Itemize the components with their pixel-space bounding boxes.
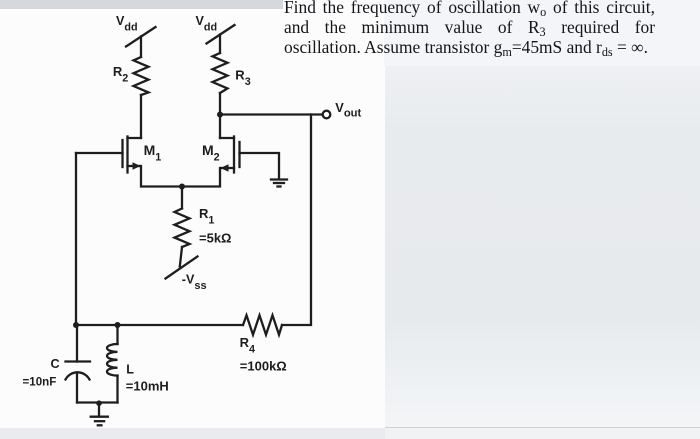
svg-text:L: L [126, 363, 134, 377]
resistor R4 [243, 315, 282, 334]
terminal Vout [323, 111, 331, 119]
resistor R3 [213, 53, 228, 93]
problem statement text [284, 0, 655, 57]
node: tank top left [73, 322, 79, 328]
wire M1 source to tail node [141, 166, 182, 187]
svg-text:=100kΩ: =100kΩ [240, 359, 287, 374]
power Vdd supply (left) [126, 27, 156, 57]
transistor M1 [123, 137, 142, 173]
inductor L [107, 325, 118, 403]
node: common source junction [179, 184, 185, 190]
power Vdd supply (right) [207, 25, 235, 53]
svg-text:R4: R4 [240, 335, 255, 356]
transistor M2 [220, 137, 240, 173]
svg-text:Vdd: Vdd [196, 14, 218, 34]
background: right gray block [385, 66, 700, 427]
wire R1 to -Vss [180, 247, 182, 267]
svg-text:M2: M2 [202, 142, 220, 164]
wire tank top [76, 324, 243, 326]
wire M2 gate [240, 153, 280, 179]
wire R2 to M1 drain [140, 95, 142, 138]
wire to Vout terminal [220, 113, 323, 115]
svg-text:R3: R3 [235, 68, 250, 89]
ground (tank) [91, 403, 108, 426]
wire M1 gate [76, 152, 123, 154]
background: right pale strip above block [384, 0, 700, 66]
background: top gray band [0, 0, 283, 9]
wire M1 gate to tank [75, 153, 77, 325]
wire M2 source to tail node [182, 168, 220, 187]
node: Vout junction [217, 112, 223, 118]
wire tail node to R1 [181, 187, 183, 209]
node: tank top L branch [115, 322, 121, 328]
svg-text:-Vss: -Vss [182, 273, 207, 293]
svg-text:=5kΩ: =5kΩ [199, 231, 231, 246]
resistor R1 [175, 209, 190, 248]
svg-text:R2: R2 [113, 64, 128, 85]
ground (M2 gate) [271, 180, 287, 187]
resistor R2 [134, 57, 149, 95]
svg-text:C: C [51, 357, 60, 371]
power -Vss supply [166, 257, 198, 279]
wire tank bottom [77, 401, 118, 403]
wire Vout to R4 corner [282, 115, 311, 326]
wire M2 drain to R3 [219, 93, 221, 138]
svg-text:Vout: Vout [335, 100, 361, 120]
node: ground junction [96, 400, 102, 406]
svg-text:R1: R1 [199, 206, 214, 227]
svg-text:=10nF: =10nF [23, 375, 57, 388]
background: bottom gray band [0, 428, 385, 439]
capacitor C [66, 325, 91, 403]
svg-text:=10mH: =10mH [126, 379, 169, 394]
svg-text:Vdd: Vdd [116, 14, 138, 34]
svg-text:M1: M1 [144, 142, 162, 164]
